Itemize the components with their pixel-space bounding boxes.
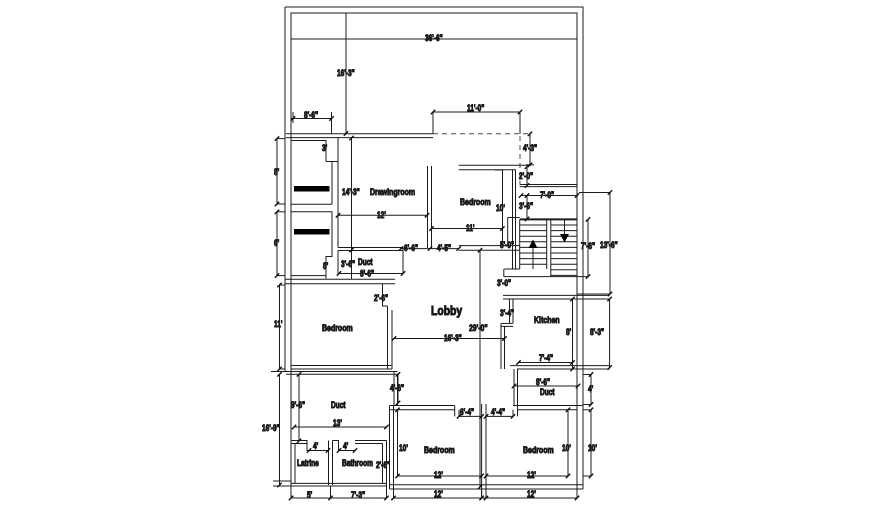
svg-text:11': 11'	[466, 223, 475, 233]
dim 3'-6"	[519, 196, 533, 220]
dimension tick slashes	[275, 110, 612, 500]
svg-text:2'-0": 2'-0"	[519, 171, 533, 181]
bathroom walls	[333, 441, 387, 487]
kitchen left upper wall	[500, 299, 514, 323]
dim 10' outer right	[583, 410, 597, 476]
staircase	[520, 219, 577, 277]
left flight treads	[520, 225, 547, 264]
svg-text:10': 10'	[588, 443, 597, 453]
dim 6'-4" door	[459, 407, 482, 417]
dim 12' drawingroom	[338, 210, 427, 220]
svg-text:Duct: Duct	[331, 400, 346, 410]
svg-text:8': 8'	[274, 167, 279, 177]
svg-text:Drawingroom: Drawingroom	[370, 187, 415, 197]
hall top wall	[520, 185, 577, 187]
down arrow	[564, 219, 566, 236]
dim 6' left	[274, 212, 285, 276]
svg-text:12': 12'	[377, 210, 386, 220]
svg-text:Bedroom: Bedroom	[322, 323, 353, 333]
wall top main horizontal	[286, 134, 433, 138]
svg-text:4': 4'	[588, 384, 593, 394]
kitchen bottom wall	[510, 366, 610, 369]
svg-text:Bathroom: Bathroom	[342, 458, 373, 468]
svg-text:9'-6": 9'-6"	[291, 400, 305, 410]
svg-text:Bedroom: Bedroom	[424, 445, 455, 455]
bed slab 1	[294, 186, 330, 192]
svg-text:7'-0": 7'-0"	[540, 190, 554, 200]
svg-text:12': 12'	[434, 470, 443, 480]
bedroom top-middle top wall	[459, 165, 531, 170]
svg-text:Lobby: Lobby	[431, 304, 462, 318]
middle wall between bedrooms	[482, 404, 486, 498]
svg-text:Duct: Duct	[358, 257, 373, 267]
dim 4'-4" door	[486, 406, 518, 418]
dim line 36'-6" top	[291, 33, 577, 43]
svg-text:8'-3": 8'-3"	[590, 327, 604, 337]
shaft wall	[513, 170, 516, 270]
lobby lower-left walls	[271, 372, 398, 406]
dim 8'-3" kitchen	[590, 299, 610, 368]
svg-text:12': 12'	[527, 470, 536, 480]
svg-text:6': 6'	[274, 238, 279, 248]
dim 12' bottom-right bedroom	[486, 470, 568, 480]
svg-text:2'-6": 2'-6"	[374, 293, 388, 303]
duct right region left wall	[514, 369, 518, 406]
store room 1 top-left	[291, 141, 338, 205]
svg-text:8': 8'	[566, 327, 571, 337]
bottom walls of bedrooms	[390, 485, 584, 489]
svg-text:Kitchen: Kitchen	[534, 315, 560, 325]
dim 16'-9" far left	[262, 374, 280, 485]
dim 14'-3" vertical	[342, 138, 360, 279]
svg-text:2'-6": 2'-6"	[376, 460, 390, 470]
dim 29'-0" vertical	[469, 250, 488, 487]
duct upper box	[338, 248, 403, 274]
svg-text:6'-6": 6'-6"	[404, 243, 418, 253]
up arrow	[532, 246, 534, 269]
dim 13'	[294, 418, 387, 428]
bedroom top wall (lower-left bedroom)	[285, 279, 395, 284]
dim 9'-6"	[291, 374, 305, 441]
dim 10' bottom-left bedroom	[398, 410, 408, 476]
svg-text:7'-6": 7'-6"	[581, 241, 595, 251]
svg-text:3'-0": 3'-0"	[497, 278, 511, 288]
bottom outer dim 12' x2	[394, 489, 578, 499]
svg-text:16'-9": 16'-9"	[262, 423, 280, 433]
wall line right of store rooms	[337, 138, 339, 248]
dim 7'-0"	[521, 190, 577, 200]
svg-text:4'-4": 4'-4"	[491, 407, 505, 417]
right flight treads	[551, 225, 577, 275]
kitchen left lower wall	[501, 323, 505, 369]
svg-text:3'-6": 3'-6"	[519, 201, 533, 211]
svg-text:10': 10'	[562, 443, 571, 453]
dim 10' bedroom	[495, 170, 505, 213]
svg-text:16'-3": 16'-3"	[337, 68, 355, 78]
dim 11' left	[274, 285, 285, 369]
svg-text:5': 5'	[307, 490, 312, 500]
svg-text:4': 4'	[343, 441, 348, 451]
svg-text:Bedroom: Bedroom	[460, 197, 491, 207]
bottom-right bedroom top wall	[513, 406, 583, 410]
svg-text:13': 13'	[333, 418, 342, 428]
svg-text:29'-0": 29'-0"	[469, 323, 488, 333]
dim 4' duct right	[583, 375, 593, 405]
svg-text:13'-6": 13'-6"	[600, 240, 618, 250]
svg-text:10': 10'	[496, 203, 505, 213]
bedroom right wall	[503, 170, 520, 246]
svg-text:8': 8'	[323, 261, 328, 271]
svg-text:16'-3": 16'-3"	[444, 333, 462, 343]
svg-text:11'-0": 11'-0"	[467, 103, 484, 113]
svg-text:4'-5": 4'-5"	[437, 243, 451, 253]
svg-text:14'-3": 14'-3"	[342, 187, 360, 197]
svg-text:3'-4": 3'-4"	[500, 308, 514, 318]
dim 8'-6"	[291, 110, 332, 134]
svg-text:11': 11'	[274, 319, 283, 329]
dim 7'-6"	[581, 219, 595, 276]
dims 6'-6" and 4'-5"	[401, 243, 459, 253]
svg-text:12': 12'	[527, 489, 536, 499]
wall drawingroom/bedroom	[428, 166, 432, 248]
svg-text:Bedroom: Bedroom	[523, 445, 554, 455]
svg-text:8'-6": 8'-6"	[360, 269, 374, 279]
kitchen top wall	[503, 295, 610, 299]
bedroom lower-left right wall with door step	[374, 284, 392, 369]
dashed opening line	[433, 134, 530, 185]
dim line 16'-3" vertical top	[337, 13, 355, 134]
dim 10' bottom-right bedroom	[562, 410, 571, 476]
svg-text:Latrine: Latrine	[297, 458, 319, 468]
dim 11'-0"	[433, 103, 520, 134]
drawingroom label	[370, 187, 415, 197]
svg-text:7'-3": 7'-3"	[351, 490, 365, 500]
dim 16'-3" lobby	[394, 333, 505, 343]
latrine walls	[291, 441, 328, 484]
dim 7'-4" kitchen	[519, 353, 573, 363]
bottom dims 5' and 7'-3"	[291, 486, 387, 500]
dim 12' bottom-left bedroom	[398, 470, 482, 480]
svg-text:8'-6": 8'-6"	[536, 377, 550, 387]
dim 2'-0"	[519, 167, 533, 186]
svg-text:36'-6": 36'-6"	[425, 33, 443, 43]
bedroom lower-left bottom wall	[291, 366, 392, 370]
dim 4'-3"	[523, 134, 537, 165]
svg-text:4'-6": 4'-6"	[390, 383, 404, 393]
svg-text:4': 4'	[313, 441, 318, 451]
svg-text:12': 12'	[434, 489, 443, 499]
bottom wall latrine/bathroom	[273, 481, 387, 486]
svg-text:8'-6": 8'-6"	[304, 110, 318, 120]
svg-text:7'-4": 7'-4"	[539, 353, 553, 363]
dim 13'-6"	[577, 193, 618, 295]
store room 2 left	[291, 212, 332, 279]
stair landing	[497, 269, 588, 288]
dim 4'-6"	[390, 374, 404, 403]
dim 11' bedroom	[432, 223, 503, 233]
svg-text:10': 10'	[399, 443, 408, 453]
svg-text:6'-4": 6'-4"	[460, 407, 474, 417]
dim 8'-6" duct right	[514, 377, 578, 387]
inner border wall	[291, 13, 577, 489]
kitchen left jog	[501, 323, 513, 326]
svg-text:3': 3'	[322, 143, 327, 153]
bedroom bottom wall / 5'-0"	[459, 240, 520, 250]
dim 8'-6" under duct	[360, 269, 374, 279]
bed slab 2	[294, 229, 330, 235]
dim 8' kitchen	[566, 299, 573, 369]
svg-text:Duct: Duct	[540, 387, 555, 397]
outer border wall	[285, 7, 583, 489]
dim 8' left	[274, 139, 285, 204]
svg-text:3'-6": 3'-6"	[341, 259, 355, 269]
wall latrine/bathroom	[329, 441, 333, 486]
svg-text:4'-3": 4'-3"	[523, 143, 537, 153]
bottom-left bedroom walls	[390, 406, 460, 490]
